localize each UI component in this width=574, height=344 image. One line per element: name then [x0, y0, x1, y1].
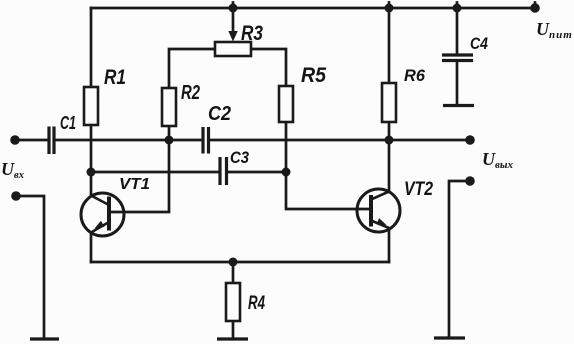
svg-text:C4: C4 — [470, 34, 488, 53]
wire second net left — [91, 171, 219, 174]
terminal Upit — [530, 3, 540, 13]
node dot R5 / VT2 base — [282, 168, 291, 177]
capacitor C4 plates — [442, 53, 473, 56]
svg-text:Uпит: Uпит — [536, 19, 573, 41]
wire C4 top lead — [456, 3, 459, 54]
svg-text:C3: C3 — [230, 148, 249, 167]
svg-text:C2: C2 — [208, 103, 231, 125]
ground bar input side — [30, 337, 59, 340]
node dot rail / R6 — [385, 4, 394, 13]
wire R3 right lead to R5 top — [251, 49, 286, 86]
svg-text:Uвых: Uвых — [482, 149, 514, 171]
terminal input upper — [10, 135, 20, 145]
terminal output upper — [465, 135, 475, 145]
svg-text:Uвх: Uвх — [1, 159, 24, 181]
svg-text:R5: R5 — [301, 64, 326, 87]
svg-text:VT1: VT1 — [119, 176, 150, 193]
wire R6 top lead — [388, 3, 391, 84]
node dot rail / R3 — [229, 4, 238, 13]
capacitor C1 plates — [47, 127, 50, 155]
wire emitter bottom rail — [91, 261, 389, 264]
svg-text:R6: R6 — [404, 66, 426, 85]
transistor VT1 — [81, 193, 124, 236]
wire output lower to ground — [449, 181, 470, 337]
svg-text:VT2: VT2 — [404, 179, 433, 200]
capacitor C2 plates — [201, 127, 204, 154]
capacitor C3 plates — [218, 157, 221, 185]
node dot R1 / VT1 collector — [87, 168, 96, 177]
wire C3 to node — [228, 171, 286, 174]
wire input lower to ground — [16, 196, 44, 338]
terminal input lower — [11, 191, 21, 201]
svg-text:R3: R3 — [241, 21, 263, 45]
wire R4 bottom lead — [232, 321, 235, 338]
node dot R6 / VT2 collector — [385, 136, 394, 145]
resistor R3 (potentiometer body) — [215, 42, 251, 56]
wire R5 bottom — [285, 122, 288, 172]
resistor R6 — [382, 83, 396, 122]
terminal output lower — [465, 176, 475, 186]
node dot R4 / emitter rail — [229, 258, 238, 267]
svg-text:R4: R4 — [248, 293, 265, 314]
wire C2 to output — [210, 139, 470, 142]
svg-text:R2: R2 — [181, 82, 200, 104]
wire R1 top lead — [90, 8, 93, 87]
wire input to C1 — [15, 139, 48, 142]
wire R4 top lead — [232, 262, 235, 283]
resistor R1 — [84, 87, 98, 125]
wire node to VT2 base — [286, 172, 369, 209]
node dot rail / C4 — [453, 4, 462, 13]
R3 wiper arrowhead — [228, 31, 237, 42]
wire R6 bottom lead — [388, 122, 391, 140]
wire VT1 emitter lead — [90, 233, 93, 262]
wire R1 bottom to VT1 collector — [90, 125, 93, 196]
wire R3 wiper arrow lead — [232, 3, 235, 34]
resistor R5 — [279, 86, 293, 122]
wire VT2 collector lead — [388, 140, 391, 192]
wire power terminal tick — [534, 3, 537, 9]
ground bar under C4 — [443, 104, 474, 107]
svg-text:C1: C1 — [60, 113, 76, 133]
wire C4 bottom lead — [456, 62, 459, 104]
resistor R4 — [226, 283, 240, 321]
resistor R2 — [162, 88, 176, 126]
wire C1 to C2 — [56, 139, 202, 142]
wire R3 left lead to R2 top — [169, 49, 215, 88]
wire VT2 emitter lead — [388, 229, 391, 263]
wire top rail — [91, 7, 535, 10]
wire R2 bottom to VT1 base — [111, 126, 169, 212]
ground bar output side — [434, 336, 465, 339]
transistor VT2 — [357, 189, 400, 232]
node dot R2 / first net — [165, 136, 174, 145]
ground bar under R4 — [217, 337, 248, 340]
svg-text:R1: R1 — [104, 65, 126, 89]
